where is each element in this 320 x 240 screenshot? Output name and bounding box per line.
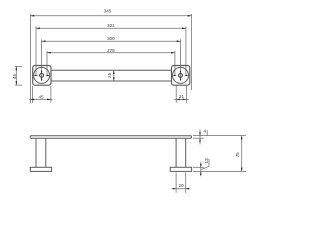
- dim 20 line: [172, 188, 190, 190]
- arrow 45-bottom left: [30, 99, 34, 101]
- dim 75 line: [241, 136, 243, 172]
- dim 300 extension line right (flange centerline): [180, 39, 182, 81]
- right foot plate (side view): [170, 167, 191, 171]
- dim 4 line (bar height, side): [199, 130, 201, 145]
- svg-text:25: 25: [107, 72, 112, 78]
- arrow 345 right: [188, 15, 192, 17]
- right hole arrow left (points right): [174, 75, 177, 76]
- svg-text:345: 345: [104, 9, 112, 14]
- right flange hole dim stub left: [173, 74, 175, 76]
- left flange hole dim stub left: [34, 74, 36, 76]
- dim 345 extension line left: [29, 14, 31, 103]
- right hole arrow top (points down): [180, 71, 181, 74]
- arrow 75 bottom (points down): [241, 168, 243, 172]
- left flange outer circle: [34, 67, 50, 83]
- foot top extension line: [193, 166, 204, 168]
- dim 13 line (foot height, side): [200, 162, 202, 176]
- dim 45 bottom line: [29, 98, 53, 100]
- right hole arrow bottom (points up): [180, 77, 181, 80]
- svg-text:4: 4: [204, 129, 207, 134]
- dim 279 extension line right: [174, 51, 176, 76]
- svg-text:45: 45: [12, 74, 17, 80]
- dim 300 extension line left (flange centerline): [41, 39, 43, 81]
- svg-text:13: 13: [204, 158, 209, 164]
- dim 21 extension left: [175, 86, 177, 103]
- svg-text:321: 321: [107, 23, 115, 28]
- arrow 25 top: [113, 70, 115, 74]
- dim 13 text bracket and leader: [202, 159, 210, 170]
- arrow 75 top (points up): [241, 136, 243, 140]
- arrow 4 top (points down): [199, 132, 201, 135]
- bar bottom extension line: [193, 137, 204, 139]
- svg-text:45: 45: [38, 94, 44, 99]
- left hole arrow bottom (points up): [41, 77, 42, 80]
- dim 345 extension line right: [191, 14, 193, 90]
- dim 45 vertical bottom extension: [15, 84, 23, 86]
- bar top extension line (shared with dim 75 top): [193, 135, 246, 137]
- right flange square plate: [172, 66, 190, 86]
- arrow 13 top (points down): [200, 164, 202, 167]
- left foot plate (side view): [30, 167, 51, 171]
- arrow 25 bottom: [113, 77, 115, 81]
- arrow 345 left: [30, 15, 34, 17]
- bar top edge (plan view): [51, 69, 172, 71]
- svg-text:300: 300: [107, 36, 115, 41]
- arrow 279 right: [171, 52, 175, 54]
- left flange square plate: [33, 66, 51, 86]
- arrow 321 left: [36, 28, 40, 30]
- arrow 21 right: [183, 99, 187, 101]
- left hole arrow right (points left): [45, 75, 48, 76]
- arrow 279 left: [47, 52, 51, 54]
- arrow 20 left (points right): [173, 188, 176, 190]
- right flange outer circle: [173, 67, 189, 83]
- left flange hole dim stub right: [48, 74, 50, 76]
- dim 20 extension right: [185, 172, 187, 192]
- left post (side view): [35, 138, 37, 167]
- left hole arrow left (points right): [35, 75, 38, 76]
- left flange center hole: [40, 74, 44, 78]
- left hole arrow top (points down): [41, 71, 42, 74]
- bar bottom edge (plan view): [51, 80, 172, 82]
- arrow 4 bottom (points up): [199, 138, 201, 141]
- dim 21 line: [174, 98, 189, 100]
- foot bottom extension line (shared with dim 75 bottom): [193, 170, 246, 172]
- dim 279 extension line left: [46, 51, 48, 76]
- right flange center hole: [179, 74, 183, 78]
- arrow 300 right: [177, 40, 181, 42]
- dim 345 line: [30, 15, 191, 17]
- dim 25 line (bar depth, plan): [113, 70, 115, 81]
- dim 321 line: [36, 27, 186, 29]
- right flange hole dim stub right: [187, 74, 189, 76]
- svg-text:20: 20: [179, 183, 185, 188]
- dim 279 line: [47, 52, 175, 54]
- arrow 13 bottom (points up): [200, 171, 202, 174]
- right hole arrow right (points left): [184, 75, 187, 76]
- dim 45 vertical top extension: [15, 65, 23, 67]
- dim 45 bottom extension right (flange edge): [50, 86, 52, 103]
- right post (side view): [175, 138, 177, 167]
- arrow 20 right (points left): [186, 188, 189, 190]
- arrow 321 right: [182, 28, 186, 30]
- dim 4 text bracket: [206, 130, 208, 135]
- arrow 45-bottom right: [47, 99, 51, 101]
- dim 45 vertical line (left of flange): [15, 66, 17, 85]
- arrow 45-left top: [16, 66, 18, 70]
- dim 300 line: [42, 40, 181, 42]
- arrow 300 left: [42, 40, 46, 42]
- dim 20 extension left: [175, 172, 177, 192]
- dim 321 extension line left: [35, 27, 37, 76]
- bar (side view): [30, 136, 191, 139]
- dim 21 extension right: [186, 86, 188, 103]
- svg-text:279: 279: [107, 48, 115, 53]
- dim 321 extension line right: [185, 27, 187, 76]
- svg-text:21: 21: [179, 94, 185, 99]
- arrow 45-left bottom: [16, 81, 18, 85]
- arrow 21 left: [176, 99, 180, 101]
- dim 45 bottom extension left (flange edge): [32, 86, 34, 103]
- svg-text:75: 75: [235, 152, 240, 158]
